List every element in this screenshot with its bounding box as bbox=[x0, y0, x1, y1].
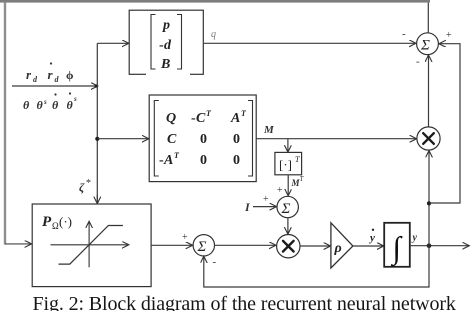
svg-text:+: + bbox=[263, 194, 269, 205]
svg-text:-: - bbox=[213, 256, 217, 268]
svg-text:I: I bbox=[244, 200, 251, 214]
wire to block2 bbox=[97, 138, 148, 140]
wire M branch down to transpose block bbox=[287, 139, 289, 152]
svg-text:θ: θ bbox=[67, 98, 74, 112]
matrix in B1 bbox=[146, 15, 190, 77]
svg-text:C: C bbox=[167, 132, 177, 147]
svg-text:+: + bbox=[277, 185, 283, 196]
svg-text:y: y bbox=[368, 232, 375, 244]
summation sum1 bbox=[417, 33, 439, 55]
summation sum3 bbox=[277, 196, 298, 217]
wire into P block top (zeta*) bbox=[96, 195, 98, 203]
wire input vertical bus bbox=[96, 43, 98, 203]
wire sum2 to mult2 bbox=[215, 244, 276, 246]
svg-text:Fig. 2: Block diagram of the r: Fig. 2: Block diagram of the recurrent n… bbox=[33, 293, 456, 311]
svg-text:r: r bbox=[26, 67, 32, 82]
wire feedback bottom to sum2 bbox=[204, 246, 429, 287]
svg-text:ϕ: ϕ bbox=[66, 68, 74, 82]
svg-text:T: T bbox=[295, 155, 300, 164]
wire top feedback bar bbox=[0, 0, 430, 3]
svg-text:0: 0 bbox=[200, 153, 207, 168]
summation sum2 bbox=[193, 235, 214, 256]
svg-text:(·): (·) bbox=[59, 214, 72, 229]
svg-text:θ: θ bbox=[37, 98, 44, 112]
wire branch right up to sum1 bbox=[429, 44, 460, 203]
wire MT from transpose to sum3 bbox=[287, 175, 289, 195]
wire mult2 to rho bbox=[300, 245, 330, 247]
svg-text:θ: θ bbox=[52, 98, 59, 112]
svg-text:-: - bbox=[416, 56, 420, 68]
node input labels top row rd rdot phi bbox=[26, 62, 74, 84]
svg-text:Σ: Σ bbox=[420, 38, 430, 54]
node input labels bottom row theta bbox=[23, 92, 77, 112]
svg-text:*: * bbox=[86, 178, 91, 189]
wire into P block bbox=[5, 243, 31, 245]
wire rho to integrator bbox=[353, 245, 383, 247]
svg-text:r: r bbox=[48, 67, 54, 82]
svg-text:+: + bbox=[182, 232, 188, 243]
svg-text:d: d bbox=[55, 75, 60, 84]
multiplier mult2 bbox=[277, 235, 300, 258]
svg-text:y: y bbox=[412, 233, 418, 244]
wire left feedback line bbox=[4, 3, 6, 245]
svg-text:A: A bbox=[230, 111, 240, 126]
wire q from B1 to sum1 bbox=[203, 42, 415, 44]
matrix entries in B2 bbox=[159, 109, 247, 168]
node junction dot bbox=[427, 243, 432, 248]
block transpose [.]^T bbox=[275, 152, 302, 174]
svg-text:Ω: Ω bbox=[52, 221, 59, 231]
saturation curve bbox=[59, 226, 123, 265]
svg-text:B: B bbox=[160, 57, 170, 72]
wire P block to sum2 bbox=[151, 244, 192, 246]
svg-text:[·]: [·] bbox=[279, 157, 292, 172]
svg-text:M: M bbox=[263, 124, 275, 136]
svg-text:Σ: Σ bbox=[281, 201, 291, 217]
svg-text:s: s bbox=[43, 98, 47, 106]
node junction dot at branch bbox=[427, 201, 431, 205]
svg-text:ζ: ζ bbox=[79, 180, 85, 194]
svg-text:ρ: ρ bbox=[334, 241, 342, 256]
svg-text:s: s bbox=[73, 95, 77, 103]
svg-text:0: 0 bbox=[233, 153, 240, 168]
wire output up to mult1 bbox=[428, 151, 430, 245]
svg-text:-: - bbox=[402, 28, 406, 40]
svg-text:A: A bbox=[163, 153, 173, 168]
wire to block1 bbox=[97, 42, 128, 44]
svg-text:P: P bbox=[42, 214, 52, 230]
svg-text:q: q bbox=[211, 29, 216, 40]
wire mult1 up to sum1 bbox=[428, 56, 430, 127]
svg-text:0: 0 bbox=[200, 132, 207, 147]
svg-text:Σ: Σ bbox=[197, 239, 207, 255]
svg-text:d: d bbox=[164, 38, 172, 53]
svg-text:p: p bbox=[162, 18, 170, 33]
block integrator bbox=[384, 223, 410, 267]
wire output y bbox=[410, 245, 469, 247]
svg-text:C: C bbox=[196, 111, 206, 126]
amplifier rho triangle bbox=[331, 223, 353, 268]
saturation plot axes bbox=[51, 222, 129, 267]
wire M from B2 to mult1 bbox=[256, 138, 416, 140]
wire I into sum3 bbox=[253, 206, 276, 208]
svg-text:T: T bbox=[300, 175, 305, 183]
block B2 matrix QCA bbox=[149, 95, 256, 182]
svg-text:θ: θ bbox=[23, 98, 30, 112]
svg-text:Q: Q bbox=[166, 111, 176, 126]
svg-text:d: d bbox=[33, 75, 38, 84]
block B1 [p;-d;B] bbox=[129, 10, 203, 74]
node junction input tee bbox=[95, 84, 98, 87]
node junction dot on bus bbox=[95, 137, 99, 141]
block P_Omega projection bbox=[32, 204, 151, 287]
svg-text:0: 0 bbox=[233, 132, 240, 147]
input wire rd bbox=[12, 85, 97, 87]
svg-text:+: + bbox=[446, 30, 452, 41]
wire sum3 to mult2 bbox=[287, 218, 289, 234]
wire sum1 output up to top bar bbox=[427, 3, 429, 33]
multiplier mult1 bbox=[417, 127, 440, 150]
